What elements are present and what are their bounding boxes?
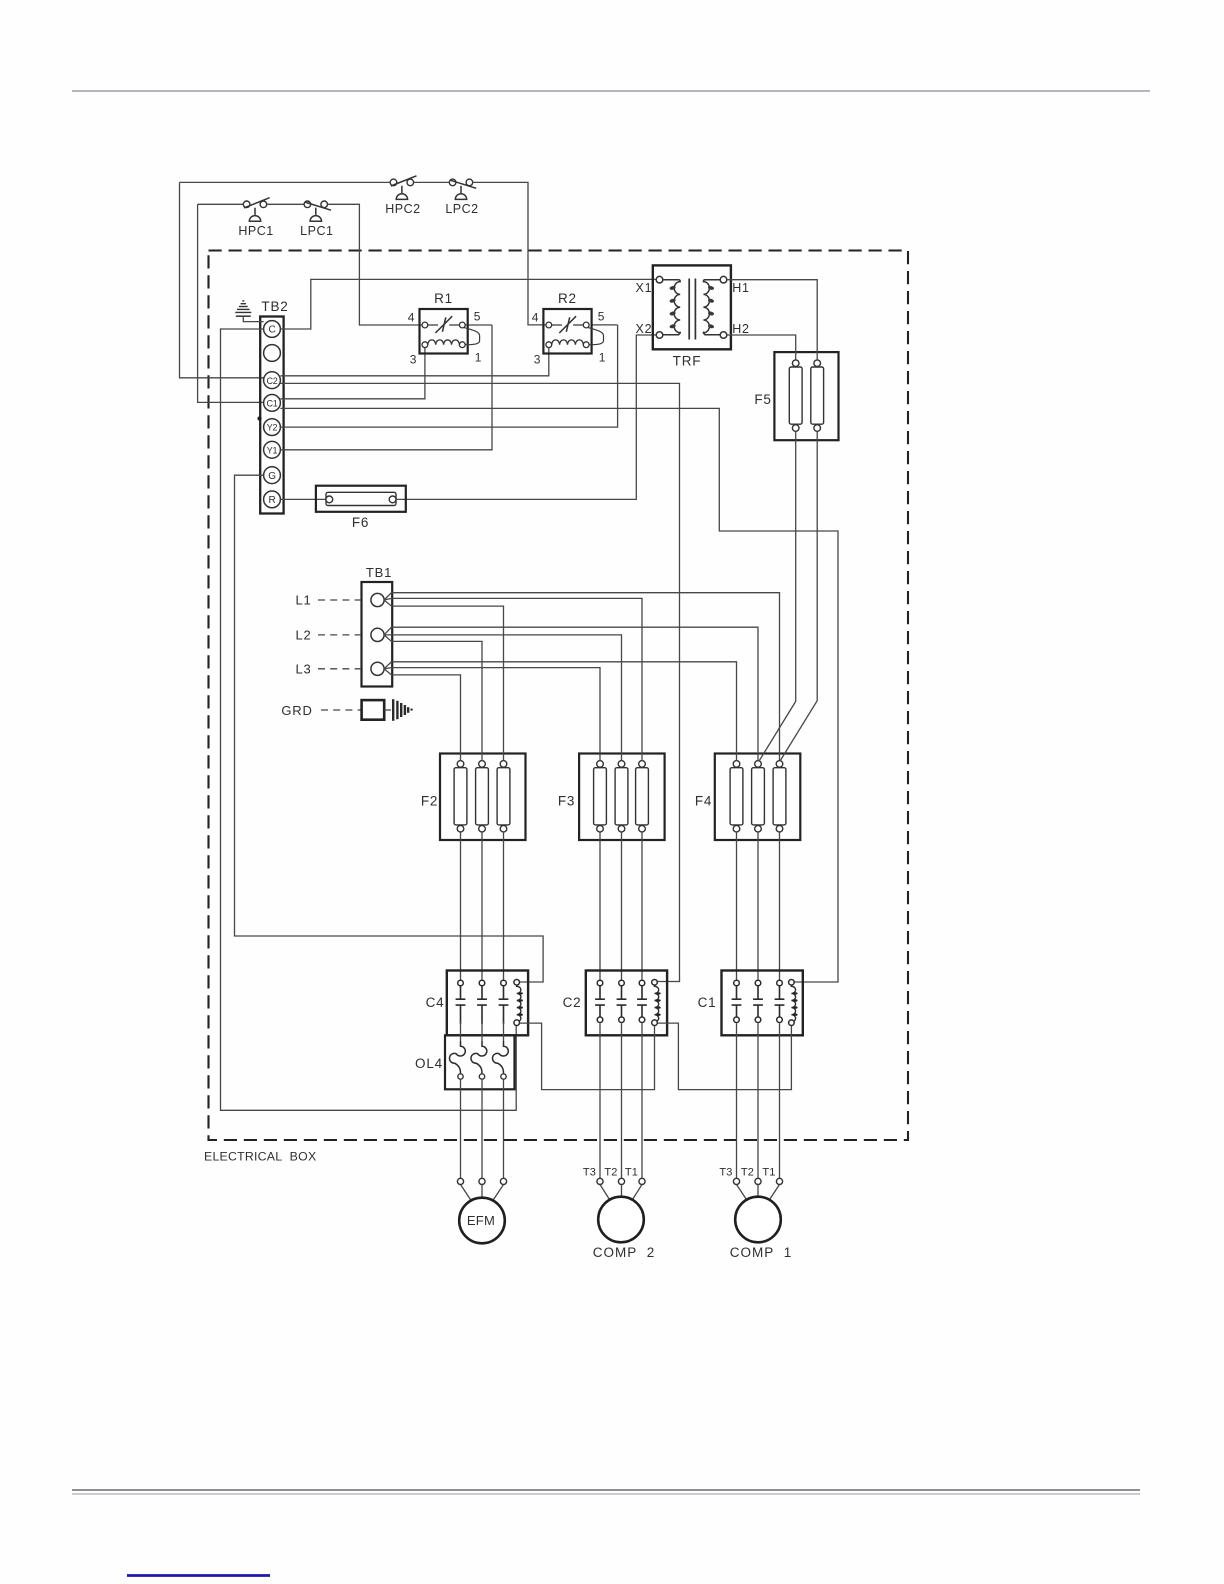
svg-text:T3: T3 bbox=[583, 1167, 596, 1179]
svg-text:C1: C1 bbox=[698, 995, 717, 1010]
svg-text:3: 3 bbox=[410, 353, 417, 367]
svg-text:EFM: EFM bbox=[467, 1213, 495, 1228]
svg-text:TB1: TB1 bbox=[366, 565, 392, 580]
svg-text:H2: H2 bbox=[732, 322, 750, 336]
svg-text:L1: L1 bbox=[295, 593, 311, 608]
svg-text:HPC1: HPC1 bbox=[238, 224, 273, 238]
svg-text:T2: T2 bbox=[604, 1167, 617, 1179]
svg-text:G: G bbox=[268, 471, 276, 482]
svg-text:4: 4 bbox=[408, 311, 415, 325]
svg-text:TRF: TRF bbox=[673, 354, 702, 369]
svg-text:C: C bbox=[269, 325, 276, 336]
svg-text:GRD: GRD bbox=[281, 703, 312, 718]
svg-text:L3: L3 bbox=[295, 661, 311, 676]
svg-text:X2: X2 bbox=[636, 322, 653, 336]
svg-text:ELECTRICAL BOX: ELECTRICAL BOX bbox=[204, 1150, 316, 1164]
svg-text:R2: R2 bbox=[558, 291, 577, 306]
svg-text:3: 3 bbox=[534, 353, 541, 367]
svg-text:C2: C2 bbox=[267, 376, 278, 386]
svg-text:Y1: Y1 bbox=[267, 445, 278, 455]
svg-text:T2: T2 bbox=[741, 1167, 754, 1179]
svg-text:LPC1: LPC1 bbox=[300, 224, 333, 238]
svg-text:H1: H1 bbox=[732, 281, 750, 295]
svg-text:COMP 1: COMP 1 bbox=[730, 1245, 793, 1260]
svg-text:HPC2: HPC2 bbox=[385, 202, 420, 216]
svg-text:C4: C4 bbox=[426, 995, 445, 1010]
svg-text:Y2: Y2 bbox=[267, 423, 278, 433]
svg-text:F5: F5 bbox=[754, 392, 771, 407]
svg-text:1: 1 bbox=[475, 351, 482, 365]
svg-text:F2: F2 bbox=[421, 794, 438, 809]
svg-text:OL4: OL4 bbox=[415, 1056, 443, 1071]
svg-text:T1: T1 bbox=[625, 1167, 638, 1179]
svg-text:R1: R1 bbox=[434, 291, 453, 306]
svg-text:COMP 2: COMP 2 bbox=[593, 1245, 656, 1260]
svg-text:X1: X1 bbox=[636, 281, 653, 295]
svg-text:C2: C2 bbox=[563, 995, 582, 1010]
svg-text:F6: F6 bbox=[352, 515, 369, 530]
svg-text:1: 1 bbox=[599, 351, 606, 365]
svg-text:LPC2: LPC2 bbox=[445, 202, 478, 216]
svg-text:R: R bbox=[269, 495, 276, 506]
svg-text:F4: F4 bbox=[695, 794, 712, 809]
svg-text:5: 5 bbox=[598, 310, 605, 324]
svg-text:4: 4 bbox=[532, 311, 539, 325]
svg-text:L2: L2 bbox=[295, 627, 311, 642]
svg-text:T3: T3 bbox=[719, 1167, 732, 1179]
svg-text:5: 5 bbox=[474, 310, 481, 324]
svg-text:F3: F3 bbox=[558, 794, 575, 809]
svg-text:TB2: TB2 bbox=[261, 299, 288, 314]
svg-text:T1: T1 bbox=[762, 1167, 775, 1179]
svg-text:C1: C1 bbox=[267, 399, 278, 409]
